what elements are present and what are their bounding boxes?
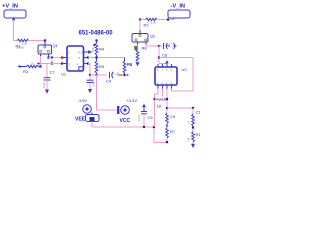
svg-text:0.1: 0.1 (169, 42, 173, 46)
svg-text:C4: C4 (106, 79, 112, 84)
svg-text:R3: R3 (23, 69, 29, 74)
svg-text:U2: U2 (182, 67, 188, 72)
svg-text:4.7K: 4.7K (22, 42, 28, 46)
svg-text:10K: 10K (91, 47, 95, 52)
svg-text:C9: C9 (170, 114, 176, 119)
svg-text:10K: 10K (187, 137, 191, 142)
svg-text:1K: 1K (31, 62, 34, 66)
svg-text:4.7K: 4.7K (151, 21, 157, 25)
svg-text:0.1uF: 0.1uF (137, 114, 141, 121)
svg-text:18: 18 (157, 104, 162, 109)
svg-text:VCC: VCC (120, 118, 131, 124)
svg-text:2N390: 2N390 (17, 46, 25, 50)
svg-text:C7: C7 (50, 70, 56, 75)
svg-text:Q1: Q1 (53, 43, 59, 48)
svg-text:VEE: VEE (75, 117, 86, 123)
svg-text:C5: C5 (148, 115, 154, 120)
svg-text:R4: R4 (99, 47, 105, 52)
svg-text:-V_IN: -V_IN (171, 4, 186, 10)
svg-text:R5: R5 (99, 64, 105, 69)
svg-text:R2: R2 (144, 23, 150, 28)
svg-text:V-: V- (77, 62, 80, 66)
svg-text:C1: C1 (196, 110, 201, 115)
svg-text:U1: U1 (61, 72, 67, 77)
svg-text:OUT: OUT (78, 51, 84, 55)
svg-text:+V_IN: +V_IN (2, 4, 18, 10)
svg-text:Q2: Q2 (150, 34, 156, 39)
svg-text:R9: R9 (127, 62, 133, 67)
svg-text:651-0486-00: 651-0486-00 (79, 31, 114, 37)
svg-text:0.1uF: 0.1uF (113, 72, 120, 76)
svg-text:10uF: 10uF (42, 82, 46, 88)
svg-text:R7: R7 (170, 129, 176, 134)
svg-text:+3.3V: +3.3V (127, 98, 138, 103)
svg-text:R1: R1 (196, 132, 201, 137)
svg-text:10uF: 10uF (92, 81, 96, 87)
svg-text:0.1: 0.1 (187, 120, 191, 124)
svg-text:-3.9V: -3.9V (78, 98, 88, 103)
svg-text:C8: C8 (162, 53, 168, 58)
